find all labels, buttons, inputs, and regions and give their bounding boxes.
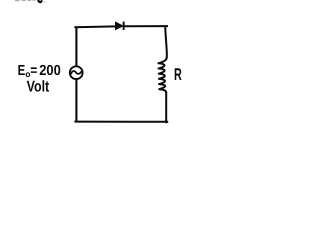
wire: left side upper <box>75 26 77 65</box>
svg-text:=: = <box>30 63 37 79</box>
wire: right side lower <box>165 92 167 123</box>
label E0 = 200 Volt <box>18 63 61 95</box>
svg-text:200: 200 <box>39 63 61 79</box>
resistor R (zigzag) <box>158 57 166 93</box>
svg-text:R: R <box>174 65 182 84</box>
wire: right side upper <box>165 25 167 56</box>
label R <box>174 65 182 84</box>
wire: top side of loop <box>75 26 167 27</box>
wire: bottom side of loop <box>75 121 167 123</box>
sine symbol inside source <box>71 71 81 74</box>
wire: left side lower <box>75 80 77 122</box>
svg-text:Volt: Volt <box>27 78 50 95</box>
AC source E0 (circle) <box>70 66 83 79</box>
cropped text remnant (top edge) <box>15 0 46 3</box>
diode D1 (top wire) <box>116 22 125 30</box>
